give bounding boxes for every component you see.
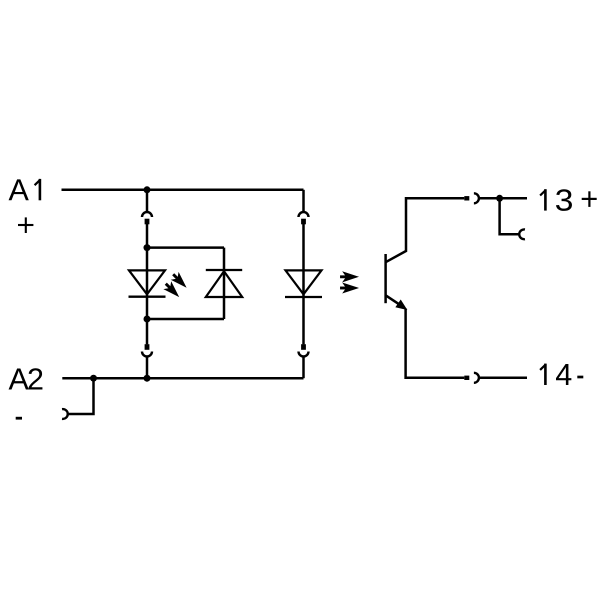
diode D2 triangle [206, 271, 242, 297]
phototransistor Q1 base bar [384, 254, 387, 303]
optocoupler LED D3 triangle [286, 270, 322, 294]
optocoupler light arrow b [340, 284, 357, 293]
node junction A2 / branch 1 [144, 375, 151, 382]
phototransistor Q1 emitter arrow [396, 300, 406, 309]
wire branch 1 through LED [146, 224, 149, 344]
label + (below A1) [18, 217, 33, 233]
wire emitter to terminal 14 [406, 309, 465, 378]
node junction 13 test tap [496, 195, 503, 202]
plug contact X2 top (pin square) [301, 219, 306, 225]
plug contact X2 bottom (socket arc) [299, 352, 309, 357]
wire branch 2 bottom drop [302, 357, 305, 379]
plug contact 14 (socket arc) [474, 373, 479, 383]
label A1 [9, 179, 29, 200]
wire A2 rail [62, 377, 303, 380]
plug contact X1 top (socket arc) [142, 212, 152, 217]
wire branch 2 top drop [302, 190, 305, 212]
wire box right (through diode) [223, 248, 226, 319]
wire to terminal 13 [479, 197, 527, 200]
node junction box top [144, 244, 151, 251]
node junction box bottom [144, 316, 151, 323]
label - (below A2) [16, 417, 22, 420]
plug contact X1 top (pin square) [145, 219, 150, 225]
wire box top [147, 246, 224, 249]
plug contact X2 top (socket arc) [299, 212, 309, 217]
wire to terminal 14 [479, 377, 527, 380]
phototransistor Q1 collector lead [386, 198, 465, 262]
label A2 [9, 369, 29, 390]
wire branch 2 through LED [302, 224, 305, 344]
wire A2 minus stub [68, 378, 94, 414]
LED D1 emission arrow b [163, 281, 181, 299]
phototransistor Q1 emitter lead [386, 295, 404, 307]
plug contact X2 bottom (pin square) [301, 344, 306, 350]
wire 13 test tap stub [500, 198, 520, 234]
open socket contact (13 test tap) [519, 229, 525, 239]
optocoupler light arrow a [340, 272, 357, 281]
wire box bottom [147, 318, 224, 321]
node junction A1 / branch 1 [144, 186, 151, 193]
LED D1 emission arrow a [170, 271, 188, 289]
plug contact X1 bottom (socket arc) [142, 352, 152, 357]
plug contact 13 (socket arc) [474, 193, 479, 203]
wire branch 1 bottom drop [146, 357, 149, 379]
optocoupler LED D3 cathode bar [285, 296, 322, 298]
plug contact X1 bottom (pin square) [145, 344, 150, 350]
LED D1 triangle [129, 270, 165, 294]
wire branch 1 top drop [146, 190, 149, 212]
label 14 - [556, 364, 571, 385]
diode D2 cathode bar [206, 269, 242, 271]
label 13 + [556, 189, 572, 211]
node junction A2 stub [90, 375, 97, 382]
open socket contact (A2 minus) [62, 409, 68, 419]
plug contact 13 (pin square) [464, 196, 469, 200]
LED D1 cathode bar [129, 296, 166, 298]
plug contact 14 (pin square) [464, 376, 469, 380]
wire A1 rail [62, 189, 304, 192]
